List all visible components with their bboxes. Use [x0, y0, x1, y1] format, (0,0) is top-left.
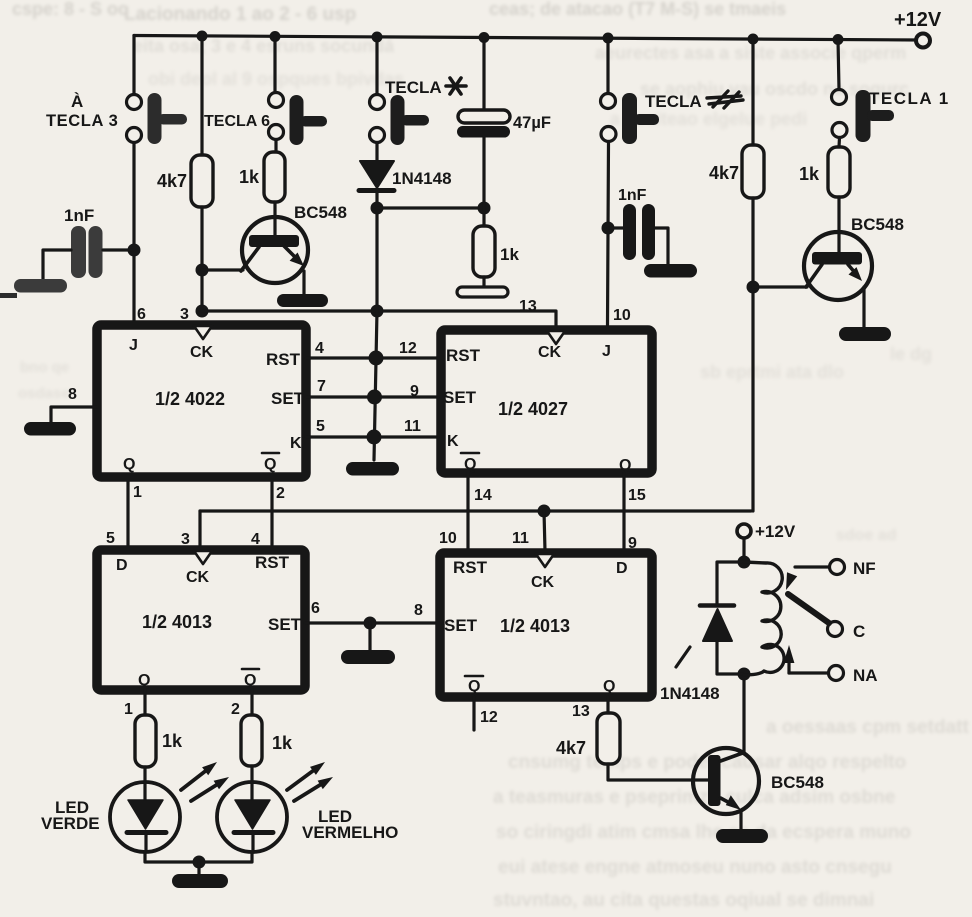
switch TECLA * [370, 78, 467, 145]
svg-text:10: 10 [613, 307, 631, 324]
svg-text:10: 10 [439, 530, 457, 547]
svg-text:12: 12 [480, 709, 498, 726]
svg-text:NA: NA [853, 666, 878, 685]
wire U4 pin12 stub [472, 697, 475, 730]
svg-text:12: 12 [399, 340, 417, 357]
LED vermelho light arrows [287, 762, 333, 801]
node +12V terminal [894, 9, 942, 48]
svg-text:1/2 4027: 1/2 4027 [498, 399, 568, 419]
ground for Q2 emitter [839, 327, 891, 341]
svg-text:SET: SET [268, 615, 302, 634]
resistor R2 1k [239, 152, 285, 202]
wire R4 drop [751, 39, 754, 145]
pin labels U1 top [68, 306, 326, 502]
transistor Q1 BC548 [241, 202, 347, 294]
svg-text:15: 15 [628, 487, 646, 504]
switch TECLA 1 [832, 89, 950, 142]
diode D1 1N4148 [359, 143, 452, 191]
svg-text:RST: RST [446, 346, 481, 365]
wire Q3 collector to relay [742, 674, 745, 753]
svg-text:TECLA: TECLA [385, 78, 442, 97]
svg-text:SET: SET [444, 616, 478, 635]
svg-text:7: 7 [317, 378, 326, 395]
svg-text:5: 5 [106, 530, 115, 547]
ground for C1 [14, 279, 67, 293]
svg-text:Q: Q [264, 456, 276, 473]
svg-text:J: J [602, 343, 611, 360]
svg-text:TECLA 3: TECLA 3 [46, 112, 118, 130]
svg-text:aeurectes asa a siste associe: aeurectes asa a siste associe qperm [595, 43, 906, 63]
svg-text:14: 14 [474, 487, 492, 504]
svg-text:C: C [853, 622, 865, 641]
svg-text:+12V: +12V [894, 9, 942, 31]
wire U3a Q pin1 to R7 [143, 690, 146, 715]
svg-text:6: 6 [137, 306, 146, 323]
capacitor C1 1nF [71, 226, 103, 278]
ground pin8 [24, 422, 76, 436]
resistor R6 4k7 [556, 713, 620, 764]
svg-text:BC548: BC548 [771, 773, 824, 792]
svg-text:BC548: BC548 [851, 215, 904, 234]
relay contact NA [784, 645, 878, 685]
svg-text:9: 9 [628, 535, 637, 552]
svg-text:1: 1 [124, 701, 133, 718]
svg-text:D: D [116, 557, 128, 574]
svg-text:11: 11 [512, 530, 529, 547]
ground for SET/K column [346, 462, 399, 476]
svg-text:NF: NF [853, 559, 876, 578]
svg-text:8: 8 [414, 602, 423, 619]
switch TECLA 3 [46, 92, 187, 144]
wire R1 to collector node to CK pin3 [196, 207, 244, 318]
svg-text:TECLA 6: TECLA 6 [204, 113, 270, 130]
svg-text:Q: Q [244, 672, 256, 689]
svg-text:1nF: 1nF [618, 187, 647, 204]
ground for Q1 emitter [277, 294, 328, 307]
svg-text:47µF: 47µF [513, 114, 551, 132]
svg-text:8: 8 [68, 386, 77, 403]
svg-text:le dg: le dg [890, 344, 932, 364]
resistor R5 1k [799, 147, 850, 197]
svg-text:4k7: 4k7 [556, 738, 586, 758]
svg-text:Q: Q [464, 456, 476, 473]
svg-text:9: 9 [410, 383, 419, 400]
stray mark left edge [0, 293, 17, 298]
wire U1 pin1 to U3a D [126, 481, 129, 545]
pin labels U3 [106, 530, 423, 718]
svg-text:3: 3 [181, 531, 190, 548]
svg-text:SET: SET [271, 389, 305, 408]
capacitor C2 47uF electrolytic [457, 110, 551, 208]
svg-text:6: 6 [311, 600, 320, 617]
pin labels U2 [399, 298, 646, 504]
svg-text:1nF: 1nF [64, 206, 94, 225]
transistor Q2 BC548 [804, 197, 904, 327]
svg-text:TECLA 1: TECLA 1 [869, 89, 950, 108]
LED vermelho [217, 766, 398, 852]
diode D2 1N4148 flyback [660, 562, 744, 703]
svg-text:+12V: +12V [755, 522, 796, 541]
wire pin8 to ground [51, 407, 97, 422]
wire 4k7 R1 drop [200, 36, 203, 155]
transistor Q3 BC548 [693, 748, 824, 829]
svg-text:CK: CK [186, 569, 210, 586]
svg-text:Q: Q [468, 678, 480, 695]
svg-text:1/2 4022: 1/2 4022 [155, 389, 225, 409]
svg-text:VERDE: VERDE [41, 814, 100, 833]
svg-text:D: D [616, 560, 628, 577]
svg-text:stuvntao, au cita questas oqiu: stuvntao, au cita questas oqiual se dimn… [493, 890, 874, 911]
svg-text:RST: RST [453, 558, 488, 577]
svg-text:5: 5 [316, 418, 325, 435]
ground for SET bus [341, 650, 395, 664]
wire SET bus y397 [306, 395, 441, 398]
wire CK bus y511 [200, 505, 751, 552]
ground for LEDs [172, 874, 228, 888]
wire TECLA* drop [375, 37, 378, 93]
svg-text:4k7: 4k7 [709, 163, 739, 183]
svg-text:ceas; de atacao (T7 M-S) se tm: ceas; de atacao (T7 M-S) se tmaeis [489, 0, 786, 19]
svg-text:4k7: 4k7 [157, 171, 187, 191]
resistor R3 1k [473, 226, 519, 277]
junction dots on top rail [197, 31, 844, 46]
svg-text:1N4148: 1N4148 [660, 684, 720, 703]
wire TECLA6 drop [273, 37, 276, 93]
svg-text:2: 2 [231, 701, 240, 718]
svg-text:J: J [129, 337, 138, 354]
svg-text:CK: CK [531, 574, 555, 591]
svg-text:RST: RST [266, 350, 301, 369]
svg-text:BC548: BC548 [294, 203, 347, 222]
svg-text:1k: 1k [500, 245, 519, 264]
wire C2 drop [482, 38, 485, 111]
wire U4 pin13 to R6 [606, 697, 609, 713]
wire U2 pin15 to U3b D [622, 473, 625, 551]
wire RST bus y358 [306, 356, 441, 359]
svg-text:2: 2 [276, 485, 285, 502]
wire node row y208 to C2 [377, 206, 484, 209]
svg-text:osdase: osdase [18, 385, 70, 402]
svg-text:a oessaas cpm setdatt: a oessaas cpm setdatt [766, 717, 969, 738]
pin labels U4 bottom [439, 530, 637, 726]
wire U1 pin2 to U3a RST [270, 481, 273, 545]
junction relay top / bottom [738, 556, 751, 569]
svg-text:sb eprtmi ata dlo: sb eprtmi ata dlo [700, 362, 844, 382]
svg-text:cspe: 8 - S oc: cspe: 8 - S oc [12, 0, 128, 19]
svg-text:3: 3 [180, 306, 189, 323]
svg-text:Q: Q [123, 456, 135, 473]
svg-text:4: 4 [315, 340, 324, 357]
resistor R1 4k7 [157, 155, 213, 207]
wire TECLA3 to pin6 with 1nF tap [132, 143, 135, 322]
wire U3a Q! pin2 to R8 [250, 690, 253, 715]
svg-text:bno qe: bno qe [20, 359, 69, 376]
svg-text:13: 13 [572, 703, 590, 720]
wire junction column to ground [367, 311, 384, 460]
capacitor C3 1nF [623, 204, 655, 260]
svg-text:1/2 4013: 1/2 4013 [500, 616, 570, 636]
wire TECLA# to J pin10 with 1nF tap [602, 142, 615, 326]
svg-text:1k: 1k [239, 167, 260, 187]
svg-text:SET: SET [443, 388, 477, 407]
wire D1 to junction column [371, 193, 384, 318]
svg-text:Lacionando 1 ao 2 - 6 usp: Lacionando 1 ao 2 - 6 usp [124, 4, 356, 25]
node relay +12V terminal [737, 522, 796, 562]
wire K bus y437 [306, 435, 441, 438]
wire +12V top rail [134, 36, 920, 41]
svg-text:11: 11 [404, 418, 421, 435]
IC U3 1/2 4013 (left) [97, 550, 305, 690]
wire TECLA# drop [606, 38, 609, 93]
svg-text:eita osa; 3 e 4 esruns socund: eita osa; 3 e 4 esruns socundá [133, 36, 395, 56]
wire TECLA6 to R2 [274, 140, 277, 153]
svg-text:TECLA: TECLA [645, 92, 702, 111]
wire C2 node to R3 [482, 208, 485, 226]
svg-text:RST: RST [255, 553, 290, 572]
svg-text:CK: CK [190, 344, 214, 361]
wire CK bus y311 from pin3 to 4027 CK pin13 [202, 311, 556, 328]
switch TECLA 6 [204, 93, 327, 146]
svg-text:K: K [447, 433, 459, 450]
IC U1 1/2 4022 [97, 325, 306, 477]
ground for Q3 emitter [716, 829, 768, 843]
wire TECLA3 drop [132, 36, 135, 94]
svg-text:sdoe ad: sdoe ad [836, 527, 896, 544]
svg-text:Q: Q [619, 457, 631, 474]
IC U2 1/2 4027 [441, 330, 652, 474]
svg-text:eui atese engne atmoseu nuno: eui atese engne atmoseu nuno asto cnsegu [498, 857, 892, 878]
svg-text:1/2 4013: 1/2 4013 [142, 612, 212, 632]
svg-text:1N4148: 1N4148 [392, 169, 452, 188]
svg-text:4: 4 [251, 531, 260, 548]
svg-text:so ciringdi atim cmsa lhe es: so ciringdi atim cmsa lhe es da ecspera … [496, 822, 911, 843]
switch TECLA # [601, 91, 744, 144]
wire U2 pin14 to U3b RST [466, 473, 469, 551]
wire R6 to Q3 base [608, 764, 709, 780]
wire R4 to collector column down to y511 [747, 198, 808, 511]
IC U4 1/2 4013 (right) [440, 553, 652, 697]
svg-text:Q: Q [603, 678, 615, 695]
svg-text:1k: 1k [272, 733, 293, 753]
resistor R8 1k [241, 715, 293, 766]
LED verde [41, 767, 180, 852]
svg-text:13: 13 [519, 298, 537, 315]
relay armature to C [788, 594, 865, 641]
relay contact NF [786, 559, 876, 590]
svg-text:1: 1 [133, 484, 142, 501]
wire TECLA1 drop [838, 40, 839, 90]
svg-text:CK: CK [538, 344, 562, 361]
ground (open bar) below R3 [457, 277, 508, 297]
relay K1 coil [744, 562, 784, 675]
svg-text:Q: Q [138, 672, 150, 689]
svg-text:VERMELHO: VERMELHO [302, 823, 398, 842]
svg-text:K: K [290, 435, 302, 452]
wire SET bus y623 with ground tap [305, 617, 441, 651]
svg-text:1k: 1k [162, 731, 183, 751]
svg-text:1k: 1k [799, 164, 820, 184]
ground for C3 [644, 264, 697, 278]
wire LED cathodes to ground [145, 852, 252, 874]
resistor R4 4k7 [709, 145, 764, 198]
wire TECLA1 to R5 [837, 138, 841, 148]
svg-text:À: À [71, 92, 83, 111]
LED verde light arrows [181, 762, 229, 801]
resistor R7 1k [135, 715, 183, 767]
